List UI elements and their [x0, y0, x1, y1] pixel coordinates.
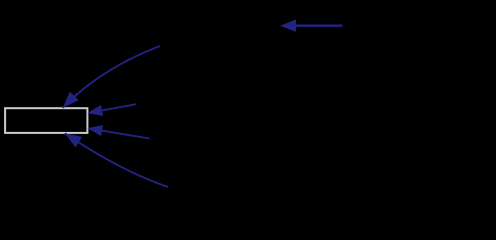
arrow C (short straight arrow to box right edge, upper)	[87, 104, 136, 116]
arrow D (short straight arrow to box right edge, lower)	[87, 125, 149, 138]
arrow A (horizontal reference arrow, top right)	[280, 20, 343, 32]
box (highlighted word frame)	[5, 108, 87, 133]
arrow B (curved arrow from upper right to box top)	[63, 46, 160, 108]
arrow E (curved arrow from lower right to box bottom)	[65, 133, 168, 187]
